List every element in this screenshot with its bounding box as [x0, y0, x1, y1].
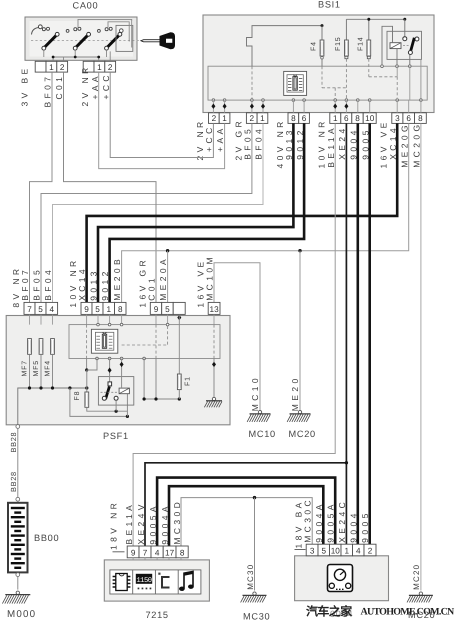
svg-text:9004A: 9004A	[314, 501, 324, 543]
wire XC14 (thick)	[87, 123, 398, 302]
svg-text:8: 8	[180, 549, 185, 558]
svg-text:10: 10	[365, 114, 375, 123]
CA00 internal wires top	[78, 19, 132, 47]
CA00 switch blade 1	[45, 35, 57, 47]
7215 pin boxes	[127, 546, 139, 558]
PSF1 strip terminals top	[97, 323, 100, 326]
svg-text:9012: 9012	[100, 268, 110, 301]
svg-text:3: 3	[310, 547, 315, 556]
svg-text:18V NR: 18V NR	[109, 500, 119, 550]
svg-text:MF4: MF4	[44, 360, 51, 376]
PSF1 internal strip	[69, 325, 220, 359]
PSF1 relay coil	[119, 388, 129, 394]
svg-text:MC10M: MC10M	[204, 254, 214, 301]
svg-text:CA00: CA00	[73, 1, 99, 11]
svg-text:6: 6	[302, 114, 307, 123]
svg-text:9: 9	[154, 305, 159, 314]
BSI1 dashed pin links inside strip	[251, 66, 253, 100]
wire MC10M	[214, 263, 260, 411]
CA00 internal wires bottom	[44, 50, 107, 57]
svg-text:7: 7	[27, 305, 32, 314]
fuses MF7 MF5 MF4	[28, 339, 32, 355]
wire XC14 inside PSF1	[86, 359, 88, 371]
svg-text:XE24C: XE24C	[337, 499, 347, 543]
BSI1 internal strip	[208, 66, 427, 100]
svg-text:2: 2	[212, 114, 217, 123]
BSI1 relay switch	[403, 37, 407, 41]
fuse F14	[368, 19, 370, 40]
battery BB00	[8, 503, 28, 573]
BSI1 zigzag feed wire	[247, 26, 323, 67]
wire BF07	[30, 72, 53, 302]
svg-text:MC30: MC30	[243, 612, 270, 622]
BSI1 pin connector diamonds	[211, 104, 215, 109]
svg-text:BF07: BF07	[42, 74, 52, 108]
svg-text:MC30C: MC30C	[303, 497, 313, 543]
svg-text:MC10: MC10	[249, 429, 276, 439]
svg-text:2: 2	[108, 63, 113, 72]
svg-text:2: 2	[60, 63, 65, 72]
wire BB28	[17, 428, 19, 497]
svg-text:F1: F1	[185, 376, 192, 386]
wire XE24 (dark)	[345, 123, 347, 544]
wire coil bottom line	[70, 388, 128, 416]
CA00 switch blade 3	[108, 35, 120, 47]
wire F8 bottom	[87, 407, 128, 411]
CA00 inner contact box	[116, 25, 133, 51]
svg-text:1: 1	[344, 547, 349, 556]
cluster bundle tick	[295, 549, 306, 551]
wire 9005A (thick)	[157, 478, 335, 546]
wire +AA	[99, 72, 225, 169]
svg-text:3V BE: 3V BE	[20, 65, 30, 106]
svg-text:BE11A: BE11A	[124, 502, 134, 545]
ignition switch CA00 body	[25, 17, 137, 60]
fuse F15	[345, 19, 347, 40]
svg-text:3: 3	[395, 114, 400, 123]
svg-text:1: 1	[97, 63, 102, 72]
component 7215 body	[104, 560, 209, 601]
wire 9005 (thick)	[368, 123, 371, 544]
wire MC30 net	[181, 498, 312, 546]
BSI1 connector plate symbol	[284, 71, 307, 95]
wire BF04	[53, 123, 264, 302]
svg-text:4: 4	[50, 305, 55, 314]
link 9013 to XC14	[87, 359, 97, 371]
svg-text:BB00: BB00	[34, 533, 59, 543]
wire ME20A	[167, 251, 169, 303]
svg-text:MC10: MC10	[250, 375, 260, 411]
svg-text:M000: M000	[7, 609, 36, 620]
svg-text:9005A: 9005A	[148, 503, 158, 545]
svg-text:9: 9	[84, 305, 89, 314]
svg-text:9: 9	[131, 549, 136, 558]
fuse F8	[85, 392, 89, 407]
svg-text:10: 10	[331, 547, 341, 556]
7215 bundle tick	[113, 551, 125, 553]
PSF1 pin box 13	[208, 302, 220, 314]
svg-text:2: 2	[249, 114, 254, 123]
svg-text:F15: F15	[335, 37, 342, 51]
svg-text:9005: 9005	[360, 510, 370, 543]
svg-text:9004A: 9004A	[160, 503, 170, 545]
svg-text:1: 1	[222, 114, 227, 123]
svg-text:5: 5	[38, 305, 43, 314]
wire BE11A	[133, 123, 335, 546]
wire ME20 to ground MC20	[299, 251, 301, 411]
fuse F4	[321, 26, 323, 40]
svg-text:4: 4	[155, 549, 160, 558]
svg-text:BB28: BB28	[9, 432, 18, 453]
svg-text:9004: 9004	[349, 510, 359, 543]
svg-text:BF04: BF04	[43, 267, 53, 301]
wire 9012 (thick)	[110, 123, 305, 302]
svg-text:MC30: MC30	[246, 564, 255, 590]
7215 icon music note	[179, 571, 194, 591]
svg-text:ME20: ME20	[290, 375, 300, 411]
wire C01 net inside PSF1	[143, 359, 145, 400]
CA00 contact circles 1	[42, 28, 45, 31]
svg-text:1: 1	[106, 305, 111, 314]
BSI1 strip bottom terminals	[212, 99, 215, 102]
wire C01	[64, 72, 157, 302]
svg-text:汽车之家: 汽车之家	[306, 605, 353, 619]
BSI1 top wire F15-F14-relay	[346, 18, 404, 20]
svg-text:2: 2	[368, 547, 373, 556]
CA00 key dashed line	[31, 40, 140, 42]
BB28 exit terminal	[16, 425, 20, 429]
svg-text:ME20G: ME20G	[399, 122, 409, 168]
7215 icon C symbol	[158, 573, 169, 588]
PSF1 relay box	[98, 377, 133, 406]
PSF1 internal bus	[18, 388, 87, 425]
svg-text:4: 4	[356, 547, 361, 556]
svg-text:5: 5	[165, 305, 170, 314]
svg-text:BE11A: BE11A	[326, 125, 336, 168]
wire ME20B to coil	[121, 359, 123, 389]
svg-text:BSI1: BSI1	[318, 0, 341, 10]
PSF1 connector plate symbol	[91, 329, 117, 353]
svg-text:BB28: BB28	[9, 471, 18, 492]
svg-text:XE24V: XE24V	[136, 501, 146, 544]
CA00 connector pins block 2	[83, 61, 94, 72]
CA00 contact circles 3	[105, 28, 108, 31]
fuse F1	[177, 374, 181, 390]
CA00 detent spring	[32, 28, 39, 35]
svg-text:9005A: 9005A	[326, 501, 336, 543]
PSF1 body	[6, 316, 230, 425]
wire empty pin to F1	[178, 314, 180, 374]
PSF1 strip terminals bottom	[96, 357, 99, 360]
PSF1 pin stub wires into body	[29, 314, 31, 324]
svg-text:+CC: +CC	[204, 124, 214, 151]
svg-text:1: 1	[260, 114, 265, 123]
svg-text:MC20: MC20	[289, 429, 316, 439]
svg-text:5: 5	[95, 305, 100, 314]
svg-text:PSF1: PSF1	[103, 431, 129, 441]
key symbol	[141, 33, 175, 49]
svg-text:MC20: MC20	[412, 564, 421, 590]
BSI1 relay box	[387, 31, 422, 59]
svg-text:+AA: +AA	[215, 125, 225, 152]
svg-text:13: 13	[210, 305, 220, 314]
svg-text:XE24: XE24	[337, 125, 347, 159]
svg-text:1: 1	[333, 114, 338, 123]
svg-text:F8: F8	[74, 391, 81, 401]
wire 9013 (thick)	[98, 123, 293, 302]
svg-text:9013: 9013	[88, 268, 98, 301]
svg-text:C01: C01	[54, 74, 64, 100]
svg-text:AUTOHOME.COM.CN: AUTOHOME.COM.CN	[361, 607, 456, 618]
PSF1 pin boxes group 9 5 1 8	[81, 302, 92, 314]
wire ME20 net	[122, 123, 409, 302]
CA00 contact circles 2	[74, 28, 77, 31]
svg-text:BF07: BF07	[20, 267, 30, 301]
svg-text:MF5: MF5	[33, 360, 40, 376]
wire 9004A (thick)	[169, 486, 323, 546]
PSF1 pin boxes group 9 5 empty	[150, 302, 161, 314]
7215 icon clock display	[136, 574, 152, 590]
BSI1 connector pin boxes	[209, 113, 220, 124]
wire +CC	[110, 72, 213, 157]
svg-text:5: 5	[321, 547, 326, 556]
PSF1 dashed links inside strip	[86, 325, 88, 359]
PSF1 empty pin diamond	[177, 315, 181, 320]
wire MC20G (long right)	[420, 123, 422, 590]
wire 9012 to relay contact	[109, 359, 111, 383]
svg-text:F14: F14	[358, 37, 365, 51]
svg-text:2V NR: 2V NR	[80, 64, 90, 106]
svg-text:MF7: MF7	[21, 360, 28, 376]
relay terminal wires into strip	[396, 49, 398, 67]
instrument cluster body	[295, 556, 389, 601]
svg-text:C01: C01	[146, 275, 156, 301]
svg-text:BF04: BF04	[254, 126, 264, 160]
svg-text:ME20A: ME20A	[158, 256, 168, 301]
svg-text:7: 7	[143, 549, 148, 558]
svg-text:8: 8	[118, 305, 123, 314]
svg-text:8: 8	[291, 114, 296, 123]
svg-text:BF05: BF05	[31, 267, 41, 301]
svg-text:ME20B: ME20B	[112, 256, 122, 301]
svg-text:MC30D: MC30D	[172, 499, 182, 545]
BSI1 relay coil	[390, 43, 401, 49]
BSI1 body	[203, 15, 434, 113]
svg-text:1: 1	[49, 63, 54, 72]
svg-text:BF05: BF05	[243, 126, 253, 160]
svg-text:8: 8	[355, 114, 360, 123]
wire relay coil top	[382, 26, 393, 66]
PSF1 relay switch	[108, 382, 112, 386]
svg-text:F4: F4	[311, 41, 318, 51]
svg-text:7215: 7215	[146, 610, 169, 620]
svg-text:+CC: +CC	[101, 72, 111, 99]
cluster pin boxes	[306, 544, 318, 556]
svg-text:17: 17	[165, 549, 175, 558]
battery BB00 terminal bottom	[16, 573, 20, 577]
7215 icon container	[110, 570, 201, 594]
svg-text:1150: 1150	[136, 577, 151, 585]
PSF1 internal ground MC	[213, 359, 215, 399]
svg-text:XC14: XC14	[77, 266, 87, 301]
7215 icon IC chip	[113, 574, 131, 591]
wire 9004 (thick)	[356, 123, 359, 544]
ground M000	[2, 591, 30, 604]
cluster icon instrument	[328, 565, 353, 592]
wire MC30 to ground	[254, 498, 256, 591]
svg-text:MC20G: MC20G	[412, 122, 422, 168]
CA00 switch blade 2	[76, 35, 88, 47]
battery BB00 terminal top	[16, 497, 20, 501]
CA00 connector pins block 1	[35, 61, 46, 72]
PSF1 pin boxes group 7 5 4	[24, 302, 35, 314]
svg-text:6: 6	[344, 114, 349, 123]
wire BF05	[41, 123, 252, 302]
